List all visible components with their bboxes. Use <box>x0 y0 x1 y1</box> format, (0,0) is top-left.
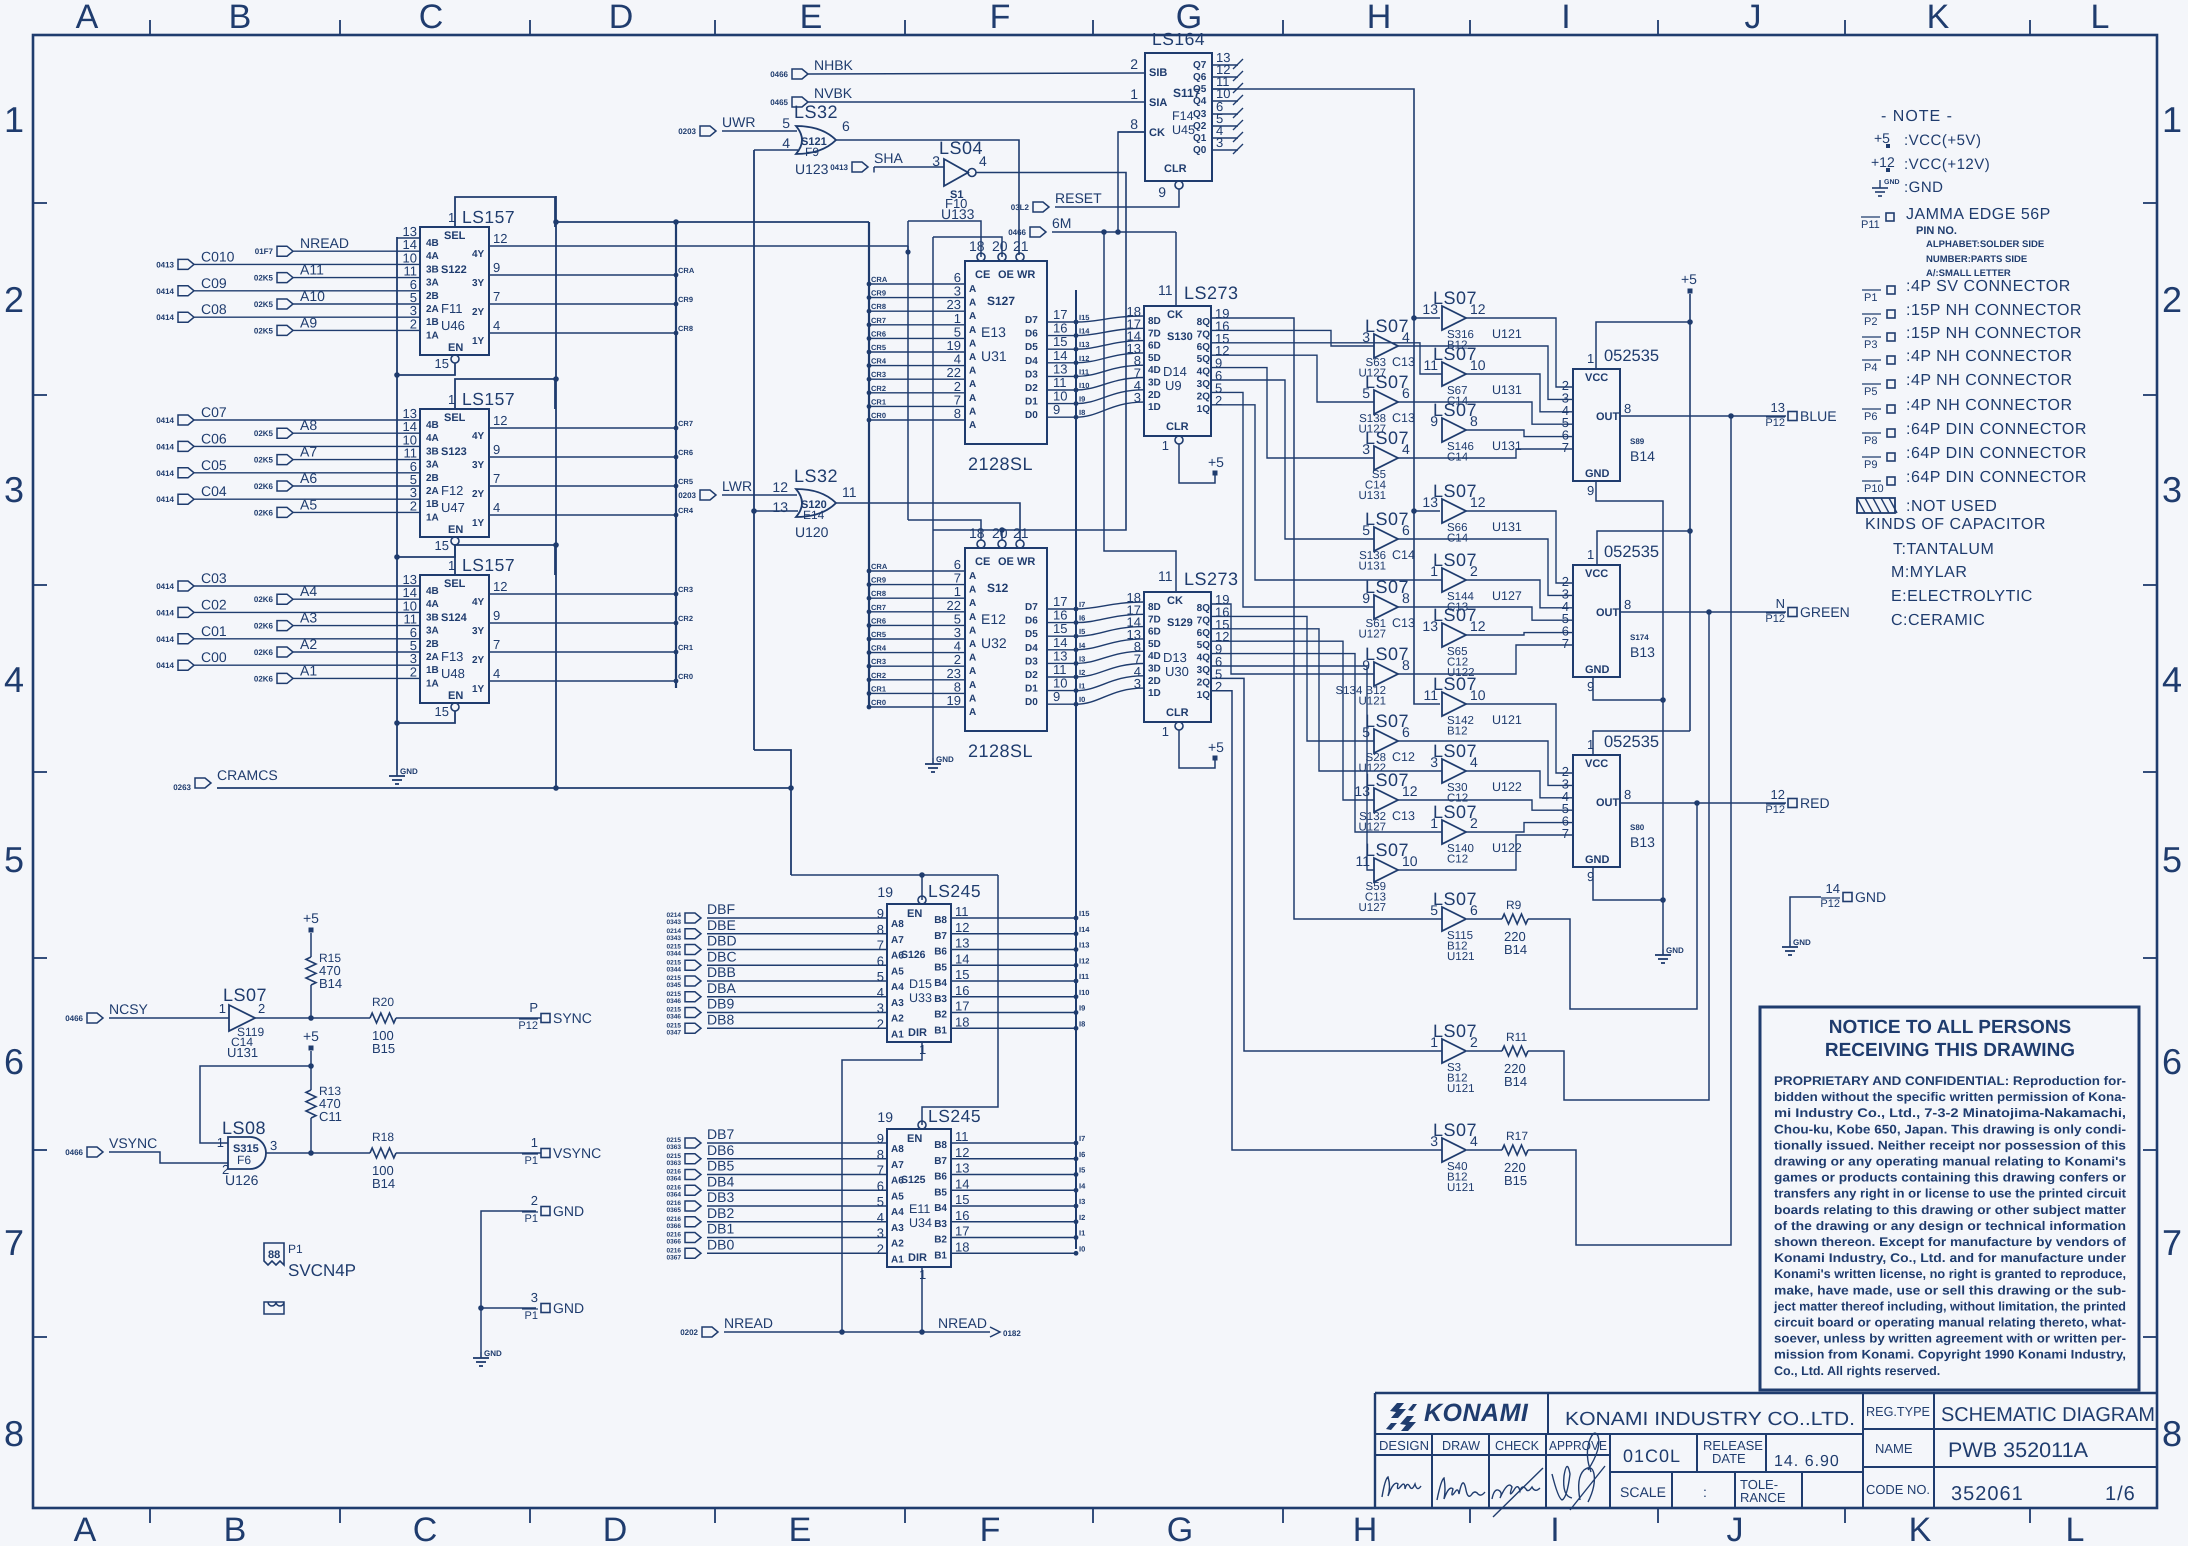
svg-text:I1: I1 <box>1079 1229 1085 1238</box>
svg-text:0203: 0203 <box>678 127 696 136</box>
svg-text:0414: 0414 <box>156 469 174 478</box>
svg-text:F9: F9 <box>805 145 819 159</box>
input connector NHBK <box>792 69 808 79</box>
svg-text::GND: :GND <box>1904 179 1944 196</box>
svg-text:B13: B13 <box>1630 644 1655 660</box>
svg-text:I5: I5 <box>1079 1166 1085 1175</box>
pin circles CE OE WR of U31 <box>977 253 985 261</box>
svg-text:T:TANTALUM: T:TANTALUM <box>1893 541 1994 558</box>
wire U34 B3 to bus <box>951 1221 1076 1223</box>
svg-text:CR7: CR7 <box>871 603 886 612</box>
vertical bus x=754 from LS32 pin4 down <box>753 150 755 750</box>
svg-text:R11: R11 <box>1506 1030 1527 1044</box>
wire CR0 from LS157 output to bus <box>490 680 676 682</box>
svg-text:U120: U120 <box>795 524 829 540</box>
svg-text:I7: I7 <box>1079 600 1085 609</box>
wire bus to U9 8D <box>1076 316 1144 322</box>
svg-text:KONAMI: KONAMI <box>1424 1399 1529 1427</box>
wire EN U34 <box>922 875 998 1125</box>
svg-text:CR7: CR7 <box>678 419 693 428</box>
svg-text:C05: C05 <box>201 457 227 473</box>
svg-text:4Y: 4Y <box>472 249 485 260</box>
svg-text:B13: B13 <box>1630 834 1655 850</box>
svg-text:DIR: DIR <box>908 1252 927 1264</box>
svg-text:I15: I15 <box>1079 313 1089 322</box>
wire CR8 from LS157 output to bus <box>490 332 676 334</box>
svg-text:0216: 0216 <box>667 1232 682 1239</box>
wire U33 B8 to bus <box>951 917 1076 919</box>
resistor R9 220 <box>1467 918 1502 920</box>
buffer LS07 S138 <box>1374 390 1398 414</box>
svg-text:2: 2 <box>877 1241 884 1256</box>
svg-text:I14: I14 <box>1079 925 1090 934</box>
svg-text:KONAMI INDUSTRY CO..LTD.: KONAMI INDUSTRY CO..LTD. <box>1565 1409 1855 1430</box>
CRAMCS input connector <box>195 778 211 788</box>
svg-text:D2: D2 <box>1025 670 1038 681</box>
svg-text:C13: C13 <box>1392 616 1415 630</box>
svg-text:2: 2 <box>1130 56 1138 72</box>
svg-text:C00: C00 <box>201 649 227 665</box>
ground for 052535 chain <box>1662 949 1664 955</box>
svg-text:13: 13 <box>1422 494 1438 510</box>
input connector A4 <box>277 594 293 604</box>
svg-text:LS32: LS32 <box>794 466 838 486</box>
svg-text:B15: B15 <box>1504 1173 1527 1188</box>
svg-text:S129: S129 <box>1167 617 1193 629</box>
svg-text:0216: 0216 <box>667 1184 682 1191</box>
svg-text:A: A <box>76 0 99 36</box>
svg-text:DB6: DB6 <box>707 1142 734 1158</box>
svg-text:9: 9 <box>493 260 500 275</box>
wire RAM U32 D5 to bus I5 <box>1047 635 1076 637</box>
svg-text:3D: 3D <box>1148 664 1161 675</box>
svg-text:CE: CE <box>975 556 990 568</box>
svg-text:I5: I5 <box>1079 627 1085 636</box>
svg-text:LS245: LS245 <box>928 881 981 901</box>
svg-text:13: 13 <box>955 1161 969 1176</box>
IC U32 2128SL S12 <box>965 548 1047 731</box>
wire CR4 to RAM U31 <box>869 365 965 367</box>
input connector DB3 <box>685 1201 701 1211</box>
wire U34 B6 to bus <box>951 1174 1076 1176</box>
svg-text::NOT USED: :NOT USED <box>1906 498 1997 515</box>
svg-text:0345: 0345 <box>667 982 682 989</box>
svg-text:LS04: LS04 <box>939 138 983 158</box>
svg-text:A: A <box>969 420 976 431</box>
svg-text:ALPHABET:SOLDER SIDE: ALPHABET:SOLDER SIDE <box>1926 239 2044 250</box>
wire R20 to SYNC connector <box>396 1017 541 1019</box>
svg-text:U121: U121 <box>1359 696 1387 708</box>
buffer LS07 S65 <box>1442 623 1466 647</box>
svg-text:3B: 3B <box>426 264 439 275</box>
wire bus to U9 4D <box>1076 365 1144 376</box>
svg-text:U48: U48 <box>441 666 465 681</box>
svg-text:A3: A3 <box>891 998 904 1009</box>
svg-text:15: 15 <box>955 967 969 982</box>
svg-text:7D: 7D <box>1148 328 1161 339</box>
buffer LS07 S144 <box>1442 568 1466 592</box>
svg-text:R9: R9 <box>1506 898 1522 912</box>
wire CR8 to RAM U32 <box>869 597 965 599</box>
svg-text:PWB 352011A: PWB 352011A <box>1948 1439 2088 1462</box>
svg-text:1B: 1B <box>426 499 439 510</box>
svg-text:B1: B1 <box>934 1250 947 1261</box>
wire 6M branch down to LS273#2 CK <box>1104 232 1176 592</box>
svg-text:DBE: DBE <box>707 917 736 933</box>
svg-text:DBB: DBB <box>707 964 736 980</box>
input connector DB8 <box>685 1023 701 1033</box>
wire LS04 output (OE chain) <box>976 173 1126 531</box>
svg-text:A8: A8 <box>891 919 904 930</box>
svg-text:I6: I6 <box>1079 614 1085 623</box>
stub Q3 of U45 with no-connect slash <box>1212 113 1238 115</box>
wire CLR U9 to +5 <box>1179 444 1215 483</box>
svg-text:CLR: CLR <box>1164 163 1187 175</box>
svg-text:D7: D7 <box>1025 315 1038 326</box>
svg-text:U131: U131 <box>1492 439 1522 453</box>
svg-text:LS157: LS157 <box>462 207 515 227</box>
svg-text:GND: GND <box>484 1349 502 1358</box>
RAM1 OE wire <box>933 237 1002 257</box>
svg-text:CR4: CR4 <box>871 357 887 366</box>
CE vertical x=908 <box>907 221 909 520</box>
svg-text:DB9: DB9 <box>707 996 734 1012</box>
pin 15 EN of U48 <box>451 703 459 711</box>
svg-text:P1: P1 <box>1864 292 1877 304</box>
svg-text:D7: D7 <box>1025 602 1038 613</box>
svg-text:3D: 3D <box>1148 378 1161 389</box>
svg-text:7: 7 <box>2162 1222 2182 1263</box>
svg-text:LS08: LS08 <box>222 1118 266 1138</box>
wire bus to U9 6D <box>1076 341 1144 350</box>
svg-text:9: 9 <box>877 906 884 921</box>
svg-text:P1: P1 <box>525 1213 538 1225</box>
svg-text:F13: F13 <box>441 649 463 664</box>
svg-text:DRAW: DRAW <box>1442 1438 1481 1453</box>
svg-text:SCALE: SCALE <box>1620 1484 1666 1500</box>
svg-text:02K6: 02K6 <box>254 674 274 683</box>
svg-text:16: 16 <box>955 1208 969 1223</box>
svg-text:2: 2 <box>877 1016 884 1031</box>
svg-text:A10: A10 <box>300 288 325 304</box>
svg-text:4: 4 <box>979 153 987 169</box>
wire NVBK to LS164 SIA <box>808 101 1145 103</box>
wire bus to U30 2D <box>1076 676 1144 691</box>
svg-text:U121: U121 <box>1447 1182 1475 1194</box>
svg-text:0465: 0465 <box>770 98 788 107</box>
svg-text:A: A <box>969 571 976 582</box>
svg-text:GND: GND <box>1793 938 1811 947</box>
wire Q5 vertical to S66 input <box>1414 510 1440 512</box>
svg-text:DBC: DBC <box>707 948 737 964</box>
svg-text:3B: 3B <box>426 612 439 623</box>
wire RAM U31 D3 to bus I11 <box>1047 375 1076 377</box>
svg-text:1: 1 <box>2162 99 2182 140</box>
svg-text:3: 3 <box>1362 441 1370 457</box>
svg-text:4Q: 4Q <box>1197 367 1211 378</box>
RAM2 CE wire <box>908 520 981 540</box>
svg-text:Q3: Q3 <box>1193 109 1207 120</box>
svg-text:VCC: VCC <box>1585 372 1608 384</box>
svg-text:052535: 052535 <box>1604 347 1659 365</box>
svg-text:2B: 2B <box>426 291 439 302</box>
svg-text:CK: CK <box>1167 595 1183 607</box>
svg-text:U121: U121 <box>1447 951 1475 963</box>
SEL loop wire of U46 <box>455 197 555 227</box>
svg-text:9: 9 <box>493 442 500 457</box>
svg-text:EN: EN <box>448 524 463 536</box>
svg-text:EN: EN <box>907 1133 922 1145</box>
svg-text:14. 6.90: 14. 6.90 <box>1774 1453 1840 1470</box>
buffer LS07 S40 <box>1442 1138 1466 1162</box>
svg-text:DB8: DB8 <box>707 1011 734 1027</box>
svg-text:Q0: Q0 <box>1193 145 1207 156</box>
svg-text:0414: 0414 <box>156 661 174 670</box>
IC B13 052535 S80 <box>1573 755 1620 867</box>
svg-text:1Y: 1Y <box>472 336 485 347</box>
svg-text:3: 3 <box>270 1138 277 1153</box>
svg-text:0346: 0346 <box>667 1014 682 1021</box>
svg-text:I: I <box>1561 0 1570 36</box>
svg-text:A1: A1 <box>300 662 317 678</box>
svg-text:0346: 0346 <box>667 998 682 1005</box>
svg-text:9: 9 <box>1053 689 1060 704</box>
wire RAM U32 D6 to bus I6 <box>1047 622 1076 624</box>
svg-text:1A: 1A <box>426 678 439 689</box>
svg-text:U34: U34 <box>909 1216 932 1230</box>
svg-text:2: 2 <box>1215 393 1222 408</box>
wire GND B13 green to chain <box>1593 677 1663 700</box>
svg-text:D2: D2 <box>1025 383 1038 394</box>
svg-text:1: 1 <box>4 99 24 140</box>
svg-text:D6: D6 <box>1025 616 1038 627</box>
IC U9 LS273 S130 <box>1144 306 1211 436</box>
input connector DB5 <box>685 1170 701 1180</box>
IC B13 052535 S174 <box>1573 565 1620 677</box>
svg-text:8: 8 <box>1470 413 1478 429</box>
input connector A2 <box>277 647 293 657</box>
svg-text:18: 18 <box>969 525 985 541</box>
input connector VSYNC <box>87 1147 103 1157</box>
svg-text:7: 7 <box>493 471 500 486</box>
svg-text:GND: GND <box>1585 854 1610 866</box>
svg-text:0214: 0214 <box>667 912 682 919</box>
svg-text:18: 18 <box>955 1239 969 1254</box>
svg-text:RED: RED <box>1800 795 1830 811</box>
wire P12 GND to ground <box>1790 897 1821 941</box>
wire NCSY to buffer <box>109 1017 229 1019</box>
svg-text:A: A <box>969 680 976 691</box>
svg-text:NCSY: NCSY <box>109 1001 149 1017</box>
wire CR3 from LS157 output to bus <box>490 593 676 595</box>
wire LS273 U30 output to LS07 input <box>1211 616 1374 741</box>
pin 15 EN of U47 <box>451 537 459 545</box>
wire RAM U32 D0 to bus I0 <box>1047 703 1076 705</box>
wire CR2 from LS157 output to bus <box>490 622 676 624</box>
svg-text:8Q: 8Q <box>1197 317 1211 328</box>
svg-text:C14: C14 <box>1392 548 1415 562</box>
input connector DB6 <box>685 1154 701 1164</box>
svg-text:7: 7 <box>877 1163 884 1178</box>
EN/GND vertical bus x=397 <box>396 237 398 770</box>
svg-text:C02: C02 <box>201 596 227 612</box>
svg-text:B7: B7 <box>934 931 947 942</box>
svg-text:B14: B14 <box>1504 942 1527 957</box>
svg-text:CR4: CR4 <box>678 506 694 515</box>
svg-text:GND: GND <box>1884 179 1900 186</box>
svg-text:0343: 0343 <box>667 935 682 942</box>
svg-text:02K5: 02K5 <box>254 274 274 283</box>
svg-text:bidden without the specific wr: bidden without the specific written perm… <box>1774 1090 2126 1104</box>
svg-text:2: 2 <box>531 1193 538 1208</box>
wire U34 B2 to bus <box>951 1237 1076 1239</box>
svg-text:Co., Ltd. All rights reserved.: Co., Ltd. All rights reserved. <box>1774 1364 1940 1378</box>
svg-text:A5: A5 <box>300 496 317 512</box>
svg-text:F6: F6 <box>237 1153 251 1167</box>
svg-text:A4: A4 <box>891 1207 904 1218</box>
svg-text:N: N <box>1776 596 1785 611</box>
svg-text:SVCN4P: SVCN4P <box>288 1261 356 1280</box>
svg-text:B5: B5 <box>934 1187 947 1198</box>
svg-text:0364: 0364 <box>667 1176 682 1183</box>
svg-text:C:CERAMIC: C:CERAMIC <box>1891 612 1985 629</box>
wire bus to U9 3D <box>1076 378 1144 391</box>
svg-text:S80: S80 <box>1630 823 1645 832</box>
svg-text:02K6: 02K6 <box>254 482 274 491</box>
svg-text:2Q: 2Q <box>1197 677 1211 688</box>
svg-text:0466: 0466 <box>65 1014 83 1023</box>
svg-text:A: A <box>969 284 976 295</box>
wire CR6 to RAM U32 <box>869 624 965 626</box>
svg-text:P12: P12 <box>1765 804 1785 816</box>
svg-text:5: 5 <box>4 839 24 880</box>
svg-text:4D: 4D <box>1148 365 1161 376</box>
pin 19 EN circle of U33 <box>918 896 926 904</box>
svg-text:1: 1 <box>531 1135 538 1150</box>
wire 6M to LS273#1 CK <box>1175 232 1177 306</box>
EN wire of U48 <box>397 711 455 723</box>
svg-text:tionally issued. Neither recei: tionally issued. Neither receipt nor pos… <box>1774 1138 2126 1152</box>
svg-text:CR8: CR8 <box>871 302 886 311</box>
svg-text:D1: D1 <box>1025 397 1038 408</box>
svg-text:I4: I4 <box>1079 1181 1086 1190</box>
wire LS08 output <box>266 1152 370 1154</box>
wire CR5 to RAM U31 <box>869 351 965 353</box>
svg-text:CR8: CR8 <box>871 589 886 598</box>
svg-text:0466: 0466 <box>770 70 788 79</box>
svg-text:0215: 0215 <box>667 991 682 998</box>
+5 supply at U9 CLR <box>1213 471 1218 476</box>
svg-text:DATE: DATE <box>1712 1451 1746 1466</box>
svg-text:4Y: 4Y <box>472 597 485 608</box>
svg-text:U131: U131 <box>227 1045 258 1060</box>
svg-text:CLR: CLR <box>1166 707 1189 719</box>
svg-text:CR7: CR7 <box>871 316 886 325</box>
signature design <box>1382 1477 1421 1497</box>
input connector A1 <box>277 673 293 683</box>
svg-text:2: 2 <box>410 498 417 513</box>
svg-text:5: 5 <box>1362 385 1370 401</box>
resistor R18 <box>370 1148 396 1158</box>
svg-text:10: 10 <box>1402 853 1418 869</box>
svg-text:drawing or any operating manua: drawing or any operating manual relating… <box>1774 1155 2126 1169</box>
svg-text:5D: 5D <box>1148 353 1161 364</box>
svg-text:6D: 6D <box>1148 627 1161 638</box>
svg-text:KINDS OF CAPACITOR: KINDS OF CAPACITOR <box>1865 516 2046 533</box>
svg-text:OUT: OUT <box>1596 411 1620 423</box>
svg-text:OUT: OUT <box>1596 607 1620 619</box>
wire 4B pin13 of U46 to EN bus <box>397 237 420 239</box>
wire CRA to RAM U31 <box>869 283 965 285</box>
svg-text:2Y: 2Y <box>472 655 485 666</box>
svg-text:CR3: CR3 <box>678 585 693 594</box>
CR bus x=869 <box>868 222 870 707</box>
svg-text:1A: 1A <box>426 330 439 341</box>
svg-text:01C0L: 01C0L <box>1623 1446 1681 1466</box>
svg-text:15: 15 <box>955 1192 969 1207</box>
svg-text:8: 8 <box>954 406 961 421</box>
svg-text:A6: A6 <box>300 470 317 486</box>
wire CR4 from LS157 output to bus <box>490 514 676 516</box>
svg-text:10: 10 <box>1470 687 1486 703</box>
svg-text:C13: C13 <box>1392 411 1415 425</box>
svg-text:4: 4 <box>4 659 24 700</box>
wire LS273 U30 output to LS07 input <box>1211 654 1442 832</box>
svg-text:CR3: CR3 <box>871 657 886 666</box>
svg-text:P8: P8 <box>1864 435 1877 447</box>
svg-text:EN: EN <box>448 342 463 354</box>
svg-text:19: 19 <box>877 884 893 900</box>
IC U34 LS245 S125 <box>887 1129 951 1267</box>
svg-text:0347: 0347 <box>667 1029 682 1036</box>
svg-text:CR5: CR5 <box>678 477 693 486</box>
wire CLR U30 to +5 <box>1179 730 1215 768</box>
svg-text:I12: I12 <box>1079 956 1089 965</box>
EN wire of U46 <box>397 363 455 375</box>
svg-text:P9: P9 <box>1864 459 1877 471</box>
svg-text:LWR: LWR <box>722 478 752 494</box>
svg-text:02K5: 02K5 <box>254 300 274 309</box>
svg-text:DIR: DIR <box>908 1027 927 1039</box>
svg-text:U46: U46 <box>441 318 465 333</box>
EN wire of U47 <box>397 545 455 557</box>
wire LS273 U9 output to LS07 input <box>1211 380 1374 539</box>
svg-text:1D: 1D <box>1148 402 1161 413</box>
svg-text:1Y: 1Y <box>472 684 485 695</box>
wire LS273 U30 output to LS07 input <box>1211 641 1374 800</box>
svg-text:4B: 4B <box>426 586 439 597</box>
svg-text:B4: B4 <box>934 1203 947 1214</box>
buffer LS07 S5 <box>1374 446 1398 470</box>
wires LS07 outputs to 052535 B13 red inputs <box>1466 704 1573 773</box>
svg-text:4: 4 <box>493 318 500 333</box>
svg-text:A: A <box>969 366 976 377</box>
wire CR6 to RAM U31 <box>869 337 965 339</box>
svg-text:S125: S125 <box>901 1174 926 1186</box>
svg-text:3: 3 <box>531 1290 538 1305</box>
svg-text:0366: 0366 <box>667 1223 682 1230</box>
wire CR5 from LS157 output to bus <box>490 485 676 487</box>
svg-text:7: 7 <box>1562 636 1569 651</box>
svg-text:2Q: 2Q <box>1197 391 1211 402</box>
svg-text:LS245: LS245 <box>928 1106 981 1126</box>
input connector SHA <box>852 162 868 172</box>
input connector A9 <box>277 325 293 335</box>
buffer LS07 S316 <box>1442 306 1466 330</box>
wire DIR U33 down to NREAD <box>842 1042 922 1332</box>
svg-text:02K5: 02K5 <box>254 456 274 465</box>
wire CR5 to RAM U32 <box>869 638 965 640</box>
